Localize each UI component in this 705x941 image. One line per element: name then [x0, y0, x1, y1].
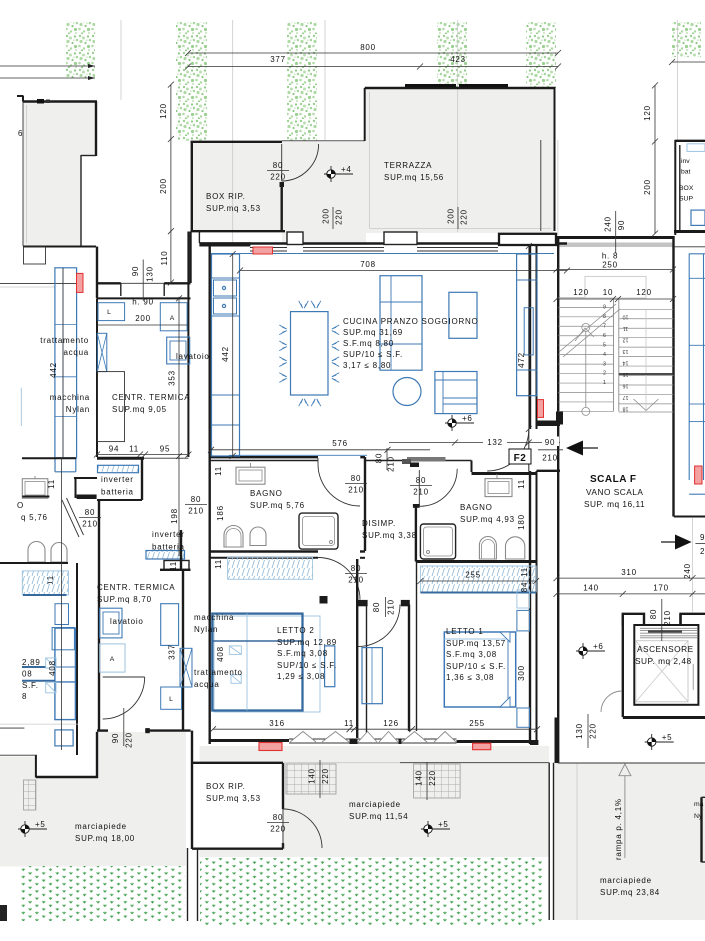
bagno2 shower	[420, 524, 455, 559]
svg-text:2: 2	[603, 371, 606, 377]
stair corner wall	[556, 412, 563, 425]
cucina north wall	[199, 242, 567, 244]
svg-text:80: 80	[649, 609, 658, 619]
svg-text:80: 80	[416, 476, 426, 485]
svg-text:16: 16	[623, 383, 629, 389]
svg-text:80: 80	[372, 602, 381, 612]
svg-text:trattamento: trattamento	[194, 668, 243, 677]
terrazza east wall	[554, 88, 556, 231]
wardrobe blue CT2	[161, 604, 179, 646]
svg-text:inverter: inverter	[101, 475, 134, 484]
level marker +6	[576, 642, 605, 659]
ramp edges	[548, 763, 550, 920]
svg-text:acqua: acqua	[63, 348, 89, 357]
svg-text:macchina: macchina	[50, 393, 90, 402]
svg-text:11: 11	[214, 466, 223, 476]
stair landing gray band	[557, 243, 673, 248]
inner face line blue	[211, 253, 554, 255]
bagno2 south wall / letto1 north wall	[416, 560, 537, 563]
dim 200/220 terrace left	[332, 207, 334, 229]
svg-text:ASCENSORE: ASCENSORE	[637, 644, 694, 654]
pillow fold bottom	[500, 697, 510, 707]
wall corner detail	[24, 247, 46, 264]
svg-text:BOX RIP.: BOX RIP.	[206, 192, 246, 201]
svg-text:LETTO 1: LETTO 1	[446, 627, 484, 636]
niche bottom wall right	[164, 282, 190, 284]
svg-text:SUP.mq 3,38: SUP.mq 3,38	[362, 531, 417, 540]
CT2 north wall	[160, 569, 191, 571]
corridor by BOX RIP gray floor	[282, 142, 366, 245]
wc left apt	[28, 542, 45, 562]
svg-text:80: 80	[85, 508, 95, 517]
h.90 parapet	[121, 282, 164, 284]
wall	[22, 496, 49, 498]
dim 576	[211, 449, 430, 451]
dim 140/220 grate right	[426, 762, 428, 800]
armchair	[435, 372, 477, 414]
shutters triangles	[290, 732, 316, 743]
svg-text:TERRAZZA: TERRAZZA	[384, 161, 432, 170]
svg-text:CENTR. TERMICA: CENTR. TERMICA	[112, 393, 190, 402]
svg-text:6: 6	[603, 333, 606, 339]
svg-text:94: 94	[109, 445, 119, 454]
svg-text:353: 353	[168, 370, 177, 386]
vegetation hedge bands	[66, 22, 95, 79]
svg-text:90: 90	[617, 220, 626, 230]
svg-text:SUP/10 ≤ S.F.: SUP/10 ≤ S.F.	[446, 662, 506, 671]
jamb letto2 corner	[320, 596, 328, 604]
section cut thick line	[619, 373, 674, 375]
svg-text:200: 200	[643, 179, 652, 195]
bagno2 west wall	[415, 506, 417, 562]
level marker +5	[421, 820, 450, 837]
right building blue railing	[688, 254, 690, 481]
lavatoio sink	[167, 337, 190, 364]
svg-text:11: 11	[344, 719, 354, 728]
red radiator right	[538, 400, 544, 418]
svg-text:708: 708	[360, 260, 376, 269]
svg-text:472: 472	[517, 352, 526, 368]
svg-text:220: 220	[321, 768, 330, 784]
svg-text:95: 95	[160, 445, 170, 454]
svg-text:SUP.mq 13,57: SUP.mq 13,57	[446, 639, 506, 648]
dim right top	[672, 61, 705, 63]
svg-text:O: O	[17, 501, 24, 510]
CT2 south wall left	[97, 729, 108, 731]
svg-text:A: A	[110, 656, 115, 663]
garden left	[20, 866, 185, 921]
corridor wardrobe	[362, 648, 382, 704]
svg-text:1: 1	[603, 380, 606, 386]
red radiator right edge	[695, 466, 702, 484]
cucina south wall	[210, 456, 318, 458]
wall	[75, 477, 77, 498]
svg-text:macchina: macchina	[194, 613, 234, 622]
svg-text:408: 408	[216, 646, 225, 662]
svg-text:220: 220	[428, 770, 437, 786]
svg-text:L: L	[107, 309, 111, 316]
svg-text:120: 120	[573, 288, 589, 297]
bagno1 door arc (from north wall)	[318, 464, 360, 506]
bagno1 shower	[299, 513, 338, 549]
svg-text:SUP.mq 3,53: SUP.mq 3,53	[206, 794, 261, 803]
svg-text:7: 7	[603, 323, 606, 329]
svg-text:140: 140	[415, 770, 424, 786]
corridor walls	[356, 559, 358, 738]
svg-text:SUP. mq 16,11: SUP. mq 16,11	[584, 499, 645, 509]
CT2 door arc	[103, 677, 145, 719]
svg-text:trattamento: trattamento	[40, 336, 89, 345]
left apt bottom thin line	[0, 727, 24, 729]
svg-text:220: 220	[460, 209, 469, 225]
dim line 186-408	[61, 458, 63, 750]
svg-text:310: 310	[621, 568, 637, 577]
railing segment	[405, 84, 456, 87]
dim 353	[178, 297, 180, 556]
dim 94/11/95	[97, 454, 188, 456]
svg-text:255: 255	[469, 719, 485, 728]
terrace edge line	[282, 140, 365, 142]
svg-text:3: 3	[603, 361, 606, 367]
svg-text:S.F.mq 3,08: S.F.mq 3,08	[446, 650, 497, 659]
level marker +6	[445, 414, 474, 431]
svg-text:186: 186	[216, 505, 225, 521]
svg-text:130: 130	[146, 266, 155, 282]
svg-text:BOX: BOX	[679, 185, 694, 192]
bagno1 east wall	[364, 457, 366, 551]
svg-text:11: 11	[214, 559, 223, 569]
svg-text:Nylan: Nylan	[66, 405, 90, 414]
svg-text:90: 90	[131, 266, 140, 276]
terrazza west wall	[364, 88, 366, 141]
dim 800	[188, 52, 558, 54]
shelf above	[517, 590, 530, 608]
vertical dim right 120/200	[654, 85, 656, 233]
svg-text:80: 80	[273, 161, 283, 170]
svg-text:+6: +6	[593, 642, 604, 651]
wall step at edge	[17, 95, 24, 97]
svg-text:SUP.mq 3,53: SUP.mq 3,53	[206, 204, 261, 213]
neighbour bottom wall	[23, 246, 96, 248]
svg-text:6: 6	[18, 129, 23, 138]
svg-text:+5: +5	[35, 820, 46, 829]
svg-text:316: 316	[269, 719, 285, 728]
inverter batteria hatch top	[98, 465, 139, 472]
railing segment	[459, 84, 508, 87]
svg-text:80: 80	[351, 564, 361, 573]
svg-text:lavatoio: lavatoio	[110, 617, 144, 626]
furniture	[52, 628, 74, 650]
ramp / marciapiede 23,84 gray floor	[554, 763, 705, 920]
left apartment bottom stepped walls	[35, 755, 37, 777]
svg-text:200: 200	[135, 314, 151, 323]
upper landing in front of stairwell gray	[557, 248, 673, 298]
F2 label	[509, 449, 531, 464]
door F2 leaf and arc	[528, 429, 530, 471]
grate middle	[286, 764, 336, 794]
upper landing rect	[585, 276, 646, 298]
svg-text:SUP/10 ≤ S.F.: SUP/10 ≤ S.F.	[277, 661, 337, 670]
svg-text:SUP.mq 15,56: SUP.mq 15,56	[384, 173, 444, 182]
svg-text:marciapiede: marciapiede	[75, 822, 127, 831]
letto2 wardrobe small	[325, 646, 335, 687]
dim 255 letto1 top	[420, 580, 536, 582]
lift lobby walls	[623, 614, 644, 626]
kitchen counter	[212, 254, 240, 456]
svg-text:180: 180	[517, 514, 526, 530]
box rip south wall	[191, 230, 286, 232]
svg-text:13: 13	[623, 348, 629, 354]
svg-text:423: 423	[450, 55, 466, 64]
dim 80/210 cucina south	[386, 448, 388, 470]
stair steps right flight	[619, 308, 674, 310]
svg-text:SUP/10 ≤ S.F.: SUP/10 ≤ S.F.	[343, 350, 403, 359]
svg-text:220: 220	[335, 209, 344, 225]
svg-text:BOX RIP.: BOX RIP.	[206, 782, 246, 791]
svg-text:+6: +6	[462, 414, 473, 423]
svg-text:h. 90: h. 90	[132, 298, 154, 307]
svg-text:CENTR. TERMICA: CENTR. TERMICA	[97, 583, 175, 592]
bottom wall under lift	[623, 716, 705, 719]
svg-text:132: 132	[487, 438, 503, 447]
svg-text:SUP.mq 31,69: SUP.mq 31,69	[343, 328, 403, 337]
svg-text:SUP.mq 9,05: SUP.mq 9,05	[112, 405, 167, 414]
column grid lines	[120, 20, 122, 100]
level marker +5	[645, 733, 674, 750]
lift door hatch	[640, 627, 697, 629]
svg-text:408: 408	[48, 660, 57, 676]
svg-text:5: 5	[603, 342, 606, 348]
svg-text:F2: F2	[514, 453, 527, 464]
boiler tall white	[98, 372, 125, 442]
svg-text:A: A	[170, 315, 175, 322]
level marker +5	[18, 820, 47, 837]
letto1 wardrobe hatch	[420, 566, 536, 592]
svg-text:batteria: batteria	[152, 543, 185, 552]
pillar edge	[540, 140, 542, 231]
svg-text:10: 10	[623, 314, 629, 320]
pillow fold top	[500, 632, 510, 642]
svg-text:170: 170	[653, 584, 669, 593]
svg-text:1,29 ≤ 3,08: 1,29 ≤ 3,08	[277, 672, 325, 681]
pillows letto2	[229, 646, 241, 655]
svg-text:lavatoio: lavatoio	[176, 352, 210, 361]
left apartment wardrobe hatch	[22, 571, 68, 595]
svg-text:SUP.mq 8,70: SUP.mq 8,70	[97, 595, 152, 604]
grate right	[414, 764, 461, 798]
svg-text:10: 10	[603, 288, 613, 297]
wall	[95, 102, 97, 157]
left neighbour terrace walls	[0, 65, 95, 67]
right building lower walls	[679, 614, 681, 626]
dim 90/220 left bottom	[123, 708, 125, 746]
thin wall to jog	[365, 460, 472, 462]
terrazza north wall	[365, 87, 556, 89]
CT2 south wall right	[145, 729, 190, 731]
svg-text:12: 12	[623, 337, 629, 343]
svg-text:11: 11	[47, 479, 56, 489]
jamb	[356, 600, 367, 606]
box rip door arc	[283, 809, 322, 848]
bagno2 bidet	[506, 537, 525, 559]
svg-text:SUP.mq 4,93: SUP.mq 4,93	[460, 515, 515, 524]
solid wall right	[499, 234, 556, 245]
svg-text:inv: inv	[681, 158, 690, 165]
svg-text:337: 337	[168, 644, 177, 660]
svg-text:rampa p. 4,1%: rampa p. 4,1%	[614, 798, 623, 860]
stairwell west wall	[557, 236, 559, 763]
svg-text:S.F.mq 8,80: S.F.mq 8,80	[343, 339, 394, 348]
marciapiede 11,54 gray floor	[200, 746, 550, 857]
niche walls x97/x190	[96, 247, 98, 299]
lift shaft outer	[634, 625, 698, 705]
stair steps left flight	[558, 297, 613, 299]
svg-text:140: 140	[308, 768, 317, 784]
dim 130/220 right bottom	[587, 714, 589, 748]
svg-text:bat: bat	[681, 169, 691, 176]
letto2 wardrobe hatch	[228, 557, 313, 579]
lavatoio 2	[100, 608, 122, 638]
garden middle	[200, 858, 545, 925]
tall cabinet right	[517, 254, 537, 396]
X-hatch tall unit	[97, 333, 107, 371]
svg-text:2: 2	[700, 547, 705, 556]
dim 708	[240, 270, 567, 272]
wall jog	[471, 461, 473, 473]
svg-text:15: 15	[623, 371, 629, 377]
sliding door track	[407, 457, 446, 462]
bed light outline	[214, 616, 320, 712]
bidet left apt	[51, 543, 67, 563]
svg-text:S.F.: S.F.	[22, 681, 39, 690]
wall stub	[537, 421, 560, 427]
A box	[160, 303, 187, 331]
dim 472	[528, 246, 530, 472]
wall step	[81, 155, 96, 157]
svg-text:SUP.mq 12,89: SUP.mq 12,89	[277, 638, 337, 647]
svg-text:1,36 ≤ 3,08: 1,36 ≤ 3,08	[446, 673, 494, 682]
letto1 south wall	[457, 740, 539, 743]
svg-text:SUP.mq 23,84: SUP.mq 23,84	[600, 888, 660, 897]
svg-text:DISIMP.: DISIMP.	[362, 519, 396, 528]
arrow right-pointing	[675, 535, 692, 550]
wall jamb	[77, 495, 97, 500]
svg-text:ma: ma	[694, 801, 704, 808]
jamb	[413, 504, 420, 508]
wall	[141, 457, 143, 500]
svg-text:SCALA F: SCALA F	[590, 474, 636, 485]
dim 442 left shaft	[62, 268, 64, 457]
neighbour terrace inner edge	[26, 105, 28, 243]
dim 80/210 ascensore	[661, 599, 663, 641]
door jamb	[280, 182, 285, 187]
bagno2 north wall	[472, 472, 538, 475]
left apt bagno walls	[22, 457, 76, 459]
svg-text:SUP.mq 11,54: SUP.mq 11,54	[349, 812, 408, 821]
svg-text:CUCINA PRANZO SOGGIORNO: CUCINA PRANZO SOGGIORNO	[343, 317, 478, 326]
left apartment party wall	[76, 563, 78, 755]
svg-text:300: 300	[517, 665, 526, 681]
svg-text:140: 140	[583, 584, 599, 593]
svg-text:576: 576	[332, 439, 348, 448]
bagno2 washbasin	[485, 479, 512, 497]
svg-text:210: 210	[387, 599, 396, 615]
svg-text:11: 11	[623, 325, 629, 331]
svg-text:210: 210	[663, 610, 672, 626]
nightstands	[517, 610, 530, 631]
svg-text:210: 210	[542, 454, 558, 463]
svg-text:377: 377	[270, 55, 286, 64]
level marker +4	[324, 165, 353, 182]
jamb	[410, 463, 419, 468]
svg-text:8: 8	[603, 314, 606, 320]
door arc near lift	[601, 691, 622, 712]
sink units	[214, 280, 237, 296]
terrazza floor inner edge lines	[369, 92, 371, 229]
svg-text:110: 110	[160, 250, 169, 265]
svg-text:800: 800	[360, 43, 376, 52]
wall	[97, 499, 142, 501]
bagno2 door leaf+arc	[418, 470, 420, 506]
grate left	[24, 780, 36, 810]
svg-text:220: 220	[270, 825, 286, 834]
lift car	[636, 641, 688, 702]
TERRAZZA gray floor	[366, 89, 554, 233]
svg-text:220: 220	[125, 732, 134, 748]
side table	[449, 292, 477, 338]
svg-text:11: 11	[169, 561, 178, 571]
round table	[393, 378, 421, 406]
bagno1 wc	[224, 526, 243, 548]
dim 120 10 120	[557, 298, 674, 300]
svg-text:126: 126	[383, 719, 399, 728]
wall stub to stairwell	[537, 470, 561, 472]
svg-text:+5: +5	[662, 733, 673, 742]
bagno1 washbasin	[236, 467, 265, 484]
svg-text:14: 14	[623, 360, 629, 366]
handrail circles	[582, 323, 590, 331]
svg-text:11: 11	[129, 445, 139, 454]
A box 2	[100, 644, 125, 672]
svg-text:11: 11	[520, 567, 529, 577]
svg-text:90: 90	[111, 733, 120, 743]
entry arrow left-pointing	[566, 441, 583, 456]
niche bottom wall left	[97, 282, 121, 284]
svg-text:80: 80	[273, 813, 283, 822]
svg-text:4: 4	[603, 352, 606, 358]
inverter batteria hatch lower	[146, 551, 185, 560]
red vent letto2 facade	[259, 743, 282, 751]
inverter niche wall	[97, 457, 144, 460]
svg-text:210: 210	[82, 520, 98, 529]
CT2 door leaf	[103, 676, 145, 678]
svg-text:VANO SCALA: VANO SCALA	[586, 487, 643, 497]
box rip east wall	[281, 186, 283, 232]
red vent letto1 facade	[473, 743, 491, 750]
svg-text:80: 80	[191, 495, 201, 504]
svg-text:442: 442	[49, 362, 58, 378]
stairwell walls	[557, 236, 675, 239]
svg-text:BAGNO: BAGNO	[460, 503, 493, 512]
wall to sidewalk	[555, 718, 558, 764]
dim 316/11/126/255	[213, 728, 537, 730]
BOX RIP gray floor	[192, 142, 282, 231]
dim 310	[557, 577, 705, 579]
sofa L-shape	[380, 276, 422, 371]
apartment east wall	[529, 246, 531, 429]
svg-text:250: 250	[602, 261, 618, 270]
wall	[80, 155, 82, 246]
